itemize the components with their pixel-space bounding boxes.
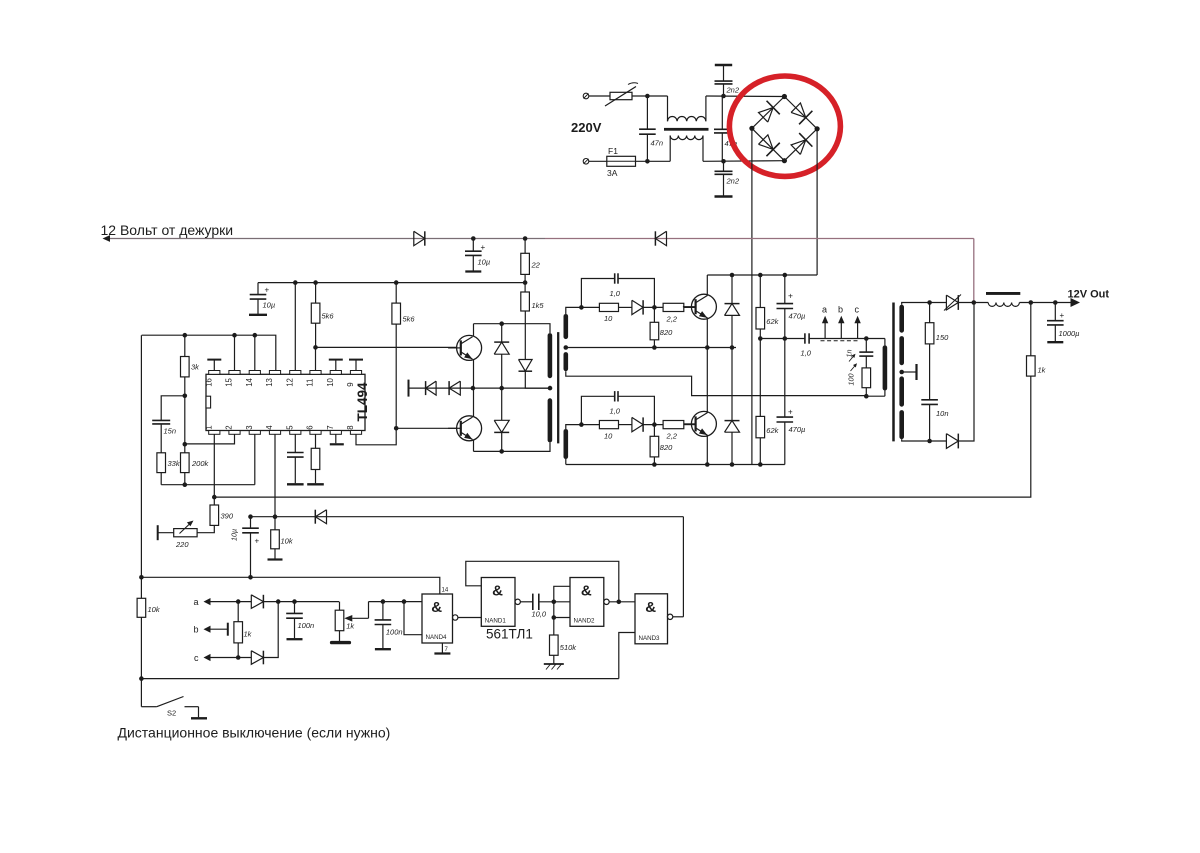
wire bridge edge BR <box>784 129 817 161</box>
svg-text:2: 2 <box>225 425 234 429</box>
svg-text:NAND3: NAND3 <box>639 635 661 642</box>
svg-text:&: & <box>581 583 592 600</box>
wire b line <box>211 623 228 636</box>
diode D16 rectifier upper <box>944 295 961 311</box>
transformer T2 secondary lower <box>564 429 569 459</box>
node J40 <box>864 336 869 341</box>
node pin15 <box>232 333 237 338</box>
label S2 <box>167 709 176 718</box>
pin number 11 <box>306 379 315 387</box>
transformer T1 core <box>892 303 895 442</box>
svg-text:200k: 200k <box>191 459 210 468</box>
resistor 10k left <box>137 335 146 617</box>
node pin14 <box>253 333 258 338</box>
pin box 12 <box>290 371 301 375</box>
pin box 15 <box>229 371 240 375</box>
wire <box>160 424 162 453</box>
net 12V from standby (red line) <box>105 238 974 240</box>
svg-text:510k: 510k <box>560 643 578 652</box>
diode D5 on standby line <box>414 231 425 245</box>
wire Q2 emitter <box>706 435 708 465</box>
label 1n <box>845 350 856 362</box>
wire pin11 <box>315 347 317 370</box>
wire bridge edge TR <box>784 97 817 129</box>
capacitor 1000µ output <box>1047 303 1064 343</box>
rail pins 13-15 <box>142 335 276 370</box>
svg-text:1,0: 1,0 <box>610 407 621 416</box>
label 12 Вольт от дежурки <box>101 222 234 238</box>
resistor 2,2 upper <box>663 303 684 311</box>
trimmer 220 <box>158 521 197 541</box>
svg-text:470µ: 470µ <box>789 425 806 434</box>
wire NAND3 lower in <box>619 633 635 679</box>
svg-text:150: 150 <box>936 333 949 342</box>
svg-text:100n: 100n <box>298 621 315 630</box>
wire Q2 collector <box>706 348 708 414</box>
wire <box>589 95 610 97</box>
node J15 <box>183 482 188 487</box>
resistor 2,2 lower <box>663 421 684 429</box>
label 510k <box>560 643 578 652</box>
svg-text:a: a <box>822 305 827 315</box>
pin10 supply bar <box>329 360 343 371</box>
svg-text:4: 4 <box>265 425 274 430</box>
svg-text:15: 15 <box>225 377 234 386</box>
label 2,2 <box>666 315 678 324</box>
label 5k6 <box>403 315 416 324</box>
test arrow a <box>822 316 828 339</box>
wire <box>140 617 142 706</box>
pin number 13 <box>265 378 274 387</box>
svg-text:12: 12 <box>285 378 294 387</box>
wire <box>160 473 162 485</box>
svg-text:NAND2: NAND2 <box>574 617 596 624</box>
pin16 supply bar <box>207 360 221 371</box>
svg-text:12V Out: 12V Out <box>1068 289 1110 301</box>
wire Q3 collector <box>473 324 475 336</box>
resistor 3k <box>181 335 190 377</box>
resistor 510k <box>550 635 559 655</box>
bridge diode D4 (B-R) <box>791 133 812 154</box>
transistor Q2 power lower <box>683 411 717 436</box>
svg-text:100n: 100n <box>386 628 403 637</box>
diode D20 c <box>251 651 263 665</box>
common-mode choke L1 <box>664 96 709 161</box>
svg-text:c: c <box>194 653 199 663</box>
resistor 62k upper <box>756 275 765 339</box>
wire <box>703 160 784 163</box>
node J38 <box>758 336 763 341</box>
node J58 <box>402 599 407 604</box>
wire NAND4 lower input <box>404 602 422 635</box>
rail cap midpoint <box>760 338 805 340</box>
node J45 <box>1029 300 1034 305</box>
label b <box>838 305 843 315</box>
wire T2 sec lower top <box>566 425 582 429</box>
capacitor 10µ at standby <box>465 239 482 272</box>
svg-text:220V: 220V <box>571 120 602 135</box>
svg-text:&: & <box>645 599 656 616</box>
node J10 <box>394 280 399 285</box>
wire Q4 emitter <box>473 440 475 451</box>
IC U1 TL494 body <box>206 374 365 430</box>
label 1k <box>244 630 253 639</box>
pin number 12 <box>285 378 294 387</box>
wire T2 sec top <box>566 307 582 314</box>
svg-text:5: 5 <box>285 425 294 430</box>
bridge diode D1 (L-T) <box>758 101 779 122</box>
node J23 <box>652 305 657 310</box>
wire a line <box>211 601 252 603</box>
wire Q1 collector <box>706 275 708 296</box>
pin9 supply bar <box>349 360 363 371</box>
svg-text:S2: S2 <box>167 709 176 718</box>
label + 470µ <box>788 291 805 321</box>
node J30 <box>730 273 735 278</box>
label 3k <box>191 363 200 372</box>
node J55 <box>292 599 297 604</box>
TL494 pin1 notch <box>206 396 211 408</box>
gate NAND2 <box>570 578 604 627</box>
label 1k <box>1038 366 1047 375</box>
diode D11 under 1k5 <box>519 311 551 388</box>
node J13 <box>183 394 188 399</box>
label + 10µ <box>478 243 491 267</box>
node J44 <box>927 439 932 444</box>
wire T2 sec return <box>566 371 867 395</box>
svg-text:+: + <box>255 537 260 546</box>
capacitor 10µ VCC <box>249 283 267 315</box>
diode D9 driver upper <box>494 324 509 388</box>
wire bridge DC- down <box>751 128 753 464</box>
node T2 sec tap <box>564 345 569 350</box>
transformer T1 primary <box>883 339 888 397</box>
pin number 4 <box>265 425 274 430</box>
rail 33k/200k bottom <box>161 484 255 486</box>
wire <box>930 440 947 442</box>
test arrow b <box>838 316 844 339</box>
wire <box>214 376 1031 497</box>
node J11 pin8/base <box>394 426 399 431</box>
pin box 9 <box>350 371 361 375</box>
pin number 15 <box>225 377 234 386</box>
svg-text:561ТЛ1: 561ТЛ1 <box>486 627 533 642</box>
transformer T2 secondary upper B <box>564 352 569 371</box>
node J28 <box>652 462 657 467</box>
capacitor 2n2 top <box>715 65 733 96</box>
svg-text:2,2: 2,2 <box>666 315 678 324</box>
svg-text:15n: 15n <box>164 427 177 436</box>
svg-text:2,2: 2,2 <box>666 432 678 441</box>
pin box 7 <box>330 431 341 435</box>
NAND4 pin14 stub <box>0 0 1 1</box>
node J54 <box>276 599 281 604</box>
resistor 5k6 B <box>392 283 401 325</box>
wire <box>184 377 186 396</box>
rail driver top <box>474 324 551 333</box>
gate NAND3 <box>635 594 668 644</box>
svg-text:13: 13 <box>265 378 274 387</box>
diode D14 commutation upper <box>725 275 740 348</box>
wire <box>263 601 339 603</box>
node J1 <box>645 94 650 99</box>
svg-text:3: 3 <box>245 425 254 429</box>
wire <box>958 302 988 304</box>
transistor Q1 power upper <box>683 294 717 319</box>
transistor Q4 <box>448 416 482 441</box>
svg-text:1000µ: 1000µ <box>1059 329 1080 338</box>
capacitor 470µ upper <box>777 275 794 339</box>
node J50 <box>139 575 144 580</box>
svg-text:220: 220 <box>175 540 189 549</box>
pin number 3 <box>245 425 254 429</box>
svg-text:F1: F1 <box>608 146 618 156</box>
node T1 center tap <box>899 370 904 375</box>
wire <box>619 306 632 308</box>
label 100n <box>298 621 315 630</box>
svg-text:+: + <box>788 291 793 301</box>
pin number 16 <box>204 378 213 387</box>
wire wiper <box>369 602 423 619</box>
label 10,0 <box>532 610 547 619</box>
svg-text:2n2: 2n2 <box>726 86 740 95</box>
transformer T1 secondary w4 <box>899 410 904 439</box>
node J22 <box>579 305 584 310</box>
node J47 <box>212 495 217 500</box>
label 10n <box>936 409 949 418</box>
red highlight circle <box>729 76 840 176</box>
label Дистанционное <box>118 725 391 741</box>
pin number 5 <box>285 425 294 430</box>
node J52 <box>139 676 144 681</box>
svg-text:NAND1: NAND1 <box>485 617 507 624</box>
svg-text:10: 10 <box>604 432 613 441</box>
wire <box>184 396 186 444</box>
node J34 <box>730 462 735 467</box>
pin box 11 <box>310 371 321 375</box>
node J60 <box>552 615 557 620</box>
resistor 10 upper <box>581 303 618 311</box>
label 390 <box>221 512 234 521</box>
node J5 <box>471 236 476 241</box>
svg-text:&: & <box>431 599 442 616</box>
svg-text:62k: 62k <box>766 317 779 326</box>
wire <box>632 95 668 97</box>
node J8 pin12 <box>293 280 298 285</box>
svg-text:6: 6 <box>306 425 315 429</box>
wire pin4 <box>274 434 276 516</box>
node J6 <box>523 236 528 241</box>
bridge diode D3 (L-B) <box>758 135 779 156</box>
transformer T2 core <box>557 332 559 443</box>
pin box 8 <box>350 431 361 435</box>
dashed measure line <box>821 340 860 342</box>
svg-text:12 Вольт от дежурки: 12 Вольт от дежурки <box>101 222 234 238</box>
node J49 pin4 <box>273 514 278 519</box>
resistor 200k <box>181 444 190 472</box>
pin number 1 <box>204 425 213 429</box>
node J14 <box>183 442 188 447</box>
svg-text:8: 8 <box>346 425 355 429</box>
svg-text:820: 820 <box>660 328 673 337</box>
node J20 <box>499 449 504 454</box>
node J33 <box>705 462 710 467</box>
resistor 10 lower <box>581 421 618 429</box>
svg-text:1k5: 1k5 <box>532 301 545 310</box>
svg-text:NAND4: NAND4 <box>426 634 448 641</box>
node J46 <box>1053 300 1058 305</box>
diode D17 rectifier lower <box>946 434 958 449</box>
node J27 <box>652 422 657 427</box>
node bridge DC- left <box>749 126 754 131</box>
wire <box>706 95 785 98</box>
capacitor 47n after choke <box>714 96 731 161</box>
wire <box>589 160 607 162</box>
resistor 1k5 <box>521 292 530 311</box>
label 62k <box>766 426 779 435</box>
switch S2 <box>141 697 207 719</box>
node J41 <box>864 394 869 399</box>
node J9 <box>313 280 318 285</box>
svg-text:1k: 1k <box>244 630 253 639</box>
capacitor 2n2 bottom <box>715 161 733 196</box>
wire pin3 <box>254 434 256 484</box>
node bridge AC top <box>782 94 787 99</box>
ground pin7 <box>330 434 344 444</box>
test arrow c <box>854 316 860 339</box>
NAND1 output <box>515 599 533 604</box>
thermistor t (NTC) <box>605 83 638 106</box>
label 1k trim <box>346 622 355 631</box>
rail driver bottom <box>474 442 551 451</box>
label 220V <box>571 120 602 135</box>
label a <box>194 597 199 607</box>
resistor at pin6 <box>307 434 324 484</box>
node J2 <box>645 159 650 164</box>
label 2n2 <box>726 86 740 95</box>
svg-text:10µ: 10µ <box>263 301 276 310</box>
diode D8 series <box>449 381 460 395</box>
label 820 <box>660 443 673 452</box>
node J51 <box>248 575 253 580</box>
svg-text:10µ: 10µ <box>230 529 239 541</box>
svg-text:10: 10 <box>604 314 613 323</box>
pin number 6 <box>306 425 315 429</box>
wire <box>636 160 671 162</box>
resistor 820 lower <box>650 425 659 465</box>
wire <box>263 602 278 658</box>
wire NAND2 upper in <box>554 586 570 602</box>
wire <box>809 338 885 340</box>
wire c line <box>211 657 252 659</box>
svg-text:10µ: 10µ <box>478 258 491 267</box>
label 5k6 <box>322 312 335 321</box>
node J29 <box>730 345 735 350</box>
capacitor at pin5 <box>287 434 304 484</box>
svg-text:16: 16 <box>204 378 213 387</box>
wire bridge DC+ down <box>816 129 818 275</box>
wire <box>539 601 570 603</box>
node J4 <box>721 159 726 164</box>
node J31 <box>758 273 763 278</box>
transformer T2 primary upper <box>548 333 553 378</box>
rail +310V top bus <box>707 274 817 276</box>
wire pin8 <box>356 428 396 445</box>
resistor 10k pulldown <box>268 517 283 560</box>
node J3 <box>721 94 726 99</box>
node J18 <box>499 321 504 326</box>
label 820 <box>660 328 673 337</box>
rail emitter mid <box>566 347 736 349</box>
label 10µ + <box>230 529 260 546</box>
node J19 <box>499 386 504 391</box>
transformer T2 secondary upper A <box>564 314 569 339</box>
svg-text:3k: 3k <box>191 363 200 372</box>
node J12 <box>183 333 188 338</box>
pin box 3 <box>249 431 260 435</box>
capacitor 470µ lower <box>777 339 794 465</box>
label 561ТЛ1 <box>486 627 533 642</box>
NAND3 output <box>667 614 683 619</box>
capacitor 1,0 lower loop <box>581 391 654 425</box>
label 10 <box>604 314 613 323</box>
label 10 <box>604 432 613 441</box>
capacitor 10n <box>921 344 938 441</box>
gate NAND1 <box>481 578 515 627</box>
capacitor 1,0 DC block <box>805 333 809 343</box>
pin number 14 <box>245 377 254 386</box>
svg-text:1k: 1k <box>1038 366 1047 375</box>
label 1k5 <box>532 301 545 310</box>
rail feedback 516.7 <box>251 516 684 518</box>
wire T2 sec lower bottom <box>565 459 567 465</box>
rail logic bottom loop <box>141 678 618 680</box>
node J59 <box>552 600 557 605</box>
rail logic top <box>141 577 439 594</box>
pin number 9 <box>346 382 355 386</box>
node bridge DC+ right <box>815 126 820 131</box>
label a <box>822 305 827 315</box>
wire Q3 emitter <box>473 360 475 388</box>
NAND2 output <box>604 599 635 604</box>
wire <box>197 525 214 532</box>
diode D18 on rail <box>315 510 326 524</box>
wire NAND1 feedback <box>466 561 619 602</box>
pin box 16 <box>209 371 220 375</box>
wire <box>395 324 397 428</box>
diode D13 lower <box>632 417 643 431</box>
label b <box>194 625 199 635</box>
svg-text:1n: 1n <box>845 350 854 358</box>
node J26 <box>579 422 584 427</box>
svg-text:TL494: TL494 <box>355 382 370 422</box>
label 47n <box>651 139 664 148</box>
label 1,0 <box>610 289 621 298</box>
label 62k <box>766 317 779 326</box>
wire NAND3 out up <box>682 517 684 617</box>
mains terminal bottom <box>583 159 589 165</box>
wire pin15 <box>234 335 236 370</box>
svg-text:820: 820 <box>660 443 673 452</box>
red line vertical drop <box>973 239 975 303</box>
label 15n <box>164 427 177 436</box>
node J32 <box>783 273 788 278</box>
resistor 1k feedback <box>1027 303 1036 377</box>
transformer T1 secondary w2 <box>899 336 904 365</box>
wire NAND2 lower in <box>554 617 570 619</box>
bridge diode D2 (T-R) <box>791 103 812 124</box>
pin box 1 <box>209 431 220 435</box>
